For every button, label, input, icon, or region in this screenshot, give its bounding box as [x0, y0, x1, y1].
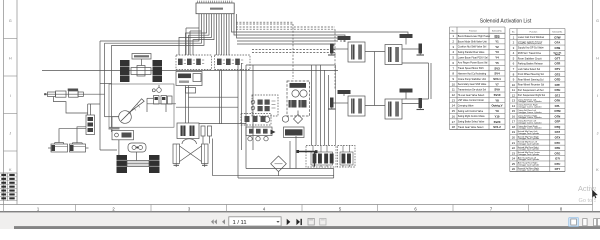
svg-text:Lock Valve Select Sol: Lock Valve Select Sol	[518, 68, 541, 71]
svg-text:Outrigger Comm. Cylinder: Outrigger Comm. Cylinder	[518, 127, 542, 130]
svg-text:Y10: Y10	[495, 114, 500, 118]
svg-text:12: 12	[452, 93, 456, 97]
svg-text:18: 18	[512, 125, 516, 129]
svg-text:SV1.2: SV1.2	[493, 125, 501, 129]
svg-text:SV3: SV3	[494, 66, 500, 70]
svg-text:Function: Function	[530, 31, 538, 34]
svg-text:Y9: Y9	[495, 109, 499, 113]
svg-text:Swing Brake Select Valve: Swing Brake Select Valve	[458, 121, 485, 124]
svg-text:Rear Wheel Steering Sol: Rear Wheel Steering Sol	[518, 78, 544, 81]
svg-text:Outrigger Jack Cylinder: Outrigger Jack Cylinder	[518, 158, 540, 161]
svg-text:Travel Speed Motor Shift: Travel Speed Motor Shift	[458, 67, 484, 70]
svg-text:Outrigger Comm. Cylinder: Outrigger Comm. Cylinder	[518, 100, 542, 103]
svg-text:Front(No.1)&Rear(rev.Ext): Front(No.1)&Rear(rev.Ext)	[518, 42, 542, 45]
svg-text:15: 15	[452, 109, 456, 113]
svg-text:25: 25	[512, 162, 516, 166]
svg-text:20: 20	[512, 136, 516, 140]
svg-text:14: 14	[512, 104, 516, 108]
svg-text:17: 17	[512, 120, 516, 124]
svg-text:Swing Left Control Valve: Swing Left Control Valve	[458, 110, 484, 113]
svg-text:O7N: O7N	[555, 114, 561, 118]
svg-text:G: G	[9, 19, 12, 23]
svg-text:Y7: Y7	[495, 82, 499, 86]
svg-text:Secondary Gear Shift Valve: Secondary Gear Shift Valve	[458, 83, 487, 86]
svg-text:O7R: O7R	[555, 62, 561, 66]
svg-text:Outrigger Comm. Cylinder: Outrigger Comm. Cylinder	[518, 116, 542, 119]
svg-text:Front Wheel Steering Sol: Front Wheel Steering Sol	[518, 73, 544, 76]
svg-text:23: 23	[512, 151, 516, 155]
svg-text:18: 18	[452, 125, 456, 129]
svg-text:Solenoid Activation List: Solenoid Activation List	[480, 18, 532, 24]
svg-text:1 / 11: 1 / 11	[233, 220, 247, 226]
svg-text:16: 16	[512, 114, 516, 118]
svg-text:O7I: O7I	[555, 157, 560, 161]
svg-text:10: 10	[452, 82, 456, 86]
svg-text:O7Z: O7Z	[555, 130, 561, 134]
svg-text:19: 19	[512, 130, 516, 134]
svg-text:16: 16	[452, 114, 456, 118]
svg-text:Outrigger Jack Cylinder: Outrigger Jack Cylinder	[518, 153, 540, 156]
svg-text:SV20: SV20	[494, 120, 501, 124]
svg-text:Boom Raise/Lower High Power: Boom Raise/Lower High Power	[458, 35, 491, 38]
svg-text:G: G	[596, 19, 599, 23]
svg-text:26: 26	[512, 167, 516, 171]
svg-text:O7H: O7H	[555, 88, 561, 92]
svg-text:17: 17	[452, 120, 456, 124]
svg-text:Solenoid No.: Solenoid No.	[492, 30, 503, 32]
svg-text:11: 11	[512, 88, 515, 92]
svg-text:Port Suspension Left Sol: Port Suspension Left Sol	[518, 89, 544, 92]
svg-text:Outrigger Jack Cylinder: Outrigger Jack Cylinder	[518, 148, 540, 151]
svg-text:Lower Cab Front Window: Lower Cab Front Window	[518, 36, 545, 39]
svg-text:Transmission De-clutch Sel: Transmission De-clutch Sel	[458, 88, 487, 91]
svg-text:SV4.1: SV4.1	[493, 77, 501, 81]
svg-text:Outrigger Jack Cylinder: Outrigger Jack Cylinder	[518, 169, 540, 172]
svg-text:LSP Valve Control Circuit: LSP Valve Control Circuit	[458, 99, 484, 102]
svg-text:Outrigger Jack Cylinder: Outrigger Jack Cylinder	[518, 163, 540, 166]
svg-text:O7C: O7C	[555, 141, 561, 145]
svg-text:Swing Parallel Flow Valve: Swing Parallel Flow Valve	[458, 51, 485, 54]
svg-text:O7W: O7W	[554, 35, 561, 39]
svg-text:Y2: Y2	[495, 45, 499, 49]
svg-text:21: 21	[512, 141, 516, 145]
svg-text:Crane Pump Stabilizer Unit: Crane Pump Stabilizer Unit	[458, 78, 486, 81]
svg-text:Outrigger Comm. Cylinder: Outrigger Comm. Cylinder	[518, 111, 542, 114]
svg-text:Y5: Y5	[495, 61, 499, 65]
svg-text:Y3: Y3	[495, 50, 499, 54]
svg-text:Outrigger Comm. Cylinder: Outrigger Comm. Cylinder	[518, 105, 542, 108]
svg-text:22: 22	[512, 146, 516, 150]
svg-text:H: H	[596, 57, 599, 61]
svg-text:J: J	[597, 132, 599, 136]
svg-text:SV9: SV9	[494, 88, 500, 92]
svg-text:Parking Brakes Release: Parking Brakes Release	[518, 63, 544, 66]
svg-text:Y4: Y4	[495, 56, 499, 60]
svg-text:Solenoid No.: Solenoid No.	[552, 32, 563, 34]
svg-text:12: 12	[512, 93, 516, 97]
svg-text:Function: Function	[469, 29, 477, 32]
svg-text:Y1: Y1	[495, 40, 499, 44]
svg-text:No.: No.	[452, 30, 455, 32]
svg-text:O7M: O7M	[554, 109, 561, 113]
svg-text:Cushion Nut Shift Valve Sel: Cushion Nut Shift Valve Sel	[458, 46, 487, 49]
svg-text:14: 14	[452, 104, 456, 108]
svg-text:13: 13	[452, 98, 456, 102]
svg-text:O7B: O7B	[555, 46, 561, 50]
svg-text:O7F: O7F	[555, 83, 561, 87]
svg-text:Outrigger Jack Cylinder: Outrigger Jack Cylinder	[518, 137, 540, 140]
svg-text:No.: No.	[512, 32, 515, 34]
svg-text:O7S: O7S	[555, 72, 561, 76]
svg-text:O7V: O7V	[555, 67, 561, 71]
svg-text:O7L: O7L	[555, 104, 561, 108]
svg-text:Creeping Valve: Creeping Valve	[458, 105, 474, 108]
svg-text:O7P: O7P	[555, 120, 561, 124]
svg-text:Boom Mode Shift Valve Unit: Boom Mode Shift Valve Unit	[458, 40, 487, 43]
svg-text:O7K: O7K	[555, 99, 561, 103]
svg-text:SV4: SV4	[494, 72, 500, 76]
svg-text:Rover Stabilizer Circuit: Rover Stabilizer Circuit	[518, 57, 542, 60]
svg-text:O7G: O7G	[554, 151, 560, 155]
svg-text:Hi-Low Gear Valve Select: Hi-Low Gear Valve Select	[458, 94, 485, 97]
svg-text:O7Q: O7Q	[554, 125, 561, 129]
svg-text:Outrig.V: Outrig.V	[491, 104, 502, 108]
svg-text:I: I	[10, 94, 11, 98]
svg-text:11: 11	[452, 88, 455, 92]
svg-text:O7T: O7T	[555, 56, 561, 60]
svg-text:24: 24	[512, 157, 516, 161]
svg-text:Arm Regen Power Boost Val: Arm Regen Power Boost Val	[458, 62, 488, 65]
svg-text:O7X: O7X	[555, 136, 561, 140]
svg-text:10: 10	[512, 83, 516, 87]
svg-text:I: I	[597, 94, 598, 98]
svg-text:Rear Wheel Recenter Sol: Rear Wheel Recenter Sol	[518, 84, 545, 87]
svg-text:O7Y: O7Y	[555, 167, 561, 171]
svg-text:O7E: O7E	[555, 146, 561, 150]
svg-text:Outrigger Comm. Cylinder: Outrigger Comm. Cylinder	[518, 121, 542, 124]
svg-text:Supply Key DP Sol Valve: Supply Key DP Sol Valve	[518, 48, 545, 50]
svg-text:O7U: O7U	[555, 162, 561, 166]
svg-text:Port Suspension Right Sol: Port Suspension Right Sol	[518, 94, 546, 97]
svg-text:Lower Boom Float PCKV Sel: Lower Boom Float PCKV Sel	[458, 56, 488, 59]
svg-text:O7A: O7A	[555, 41, 561, 45]
svg-text:13: 13	[512, 99, 516, 103]
svg-text:SV10: SV10	[494, 93, 501, 97]
svg-text:Outrigger Jack Cylinder: Outrigger Jack Cylinder	[518, 132, 540, 135]
svg-text:Y8: Y8	[495, 98, 499, 102]
svg-text:O7J: O7J	[555, 93, 561, 97]
svg-text:RCB Sol / Travel Drive: RCB Sol / Travel Drive	[518, 52, 542, 55]
svg-text:Outrigger Jack Cylinder: Outrigger Jack Cylinder	[518, 142, 540, 145]
svg-text:J: J	[9, 132, 11, 136]
svg-text:O7D: O7D	[555, 78, 561, 82]
svg-text:Swing Right Control Valve: Swing Right Control Valve	[458, 115, 486, 118]
svg-text:H: H	[9, 57, 12, 61]
svg-text:Travel Gear Valve Select: Travel Gear Valve Select	[458, 126, 484, 129]
svg-text:Hammer Hyd Cyl Activating: Hammer Hyd Cyl Activating	[458, 72, 487, 75]
svg-text:15: 15	[512, 109, 516, 113]
